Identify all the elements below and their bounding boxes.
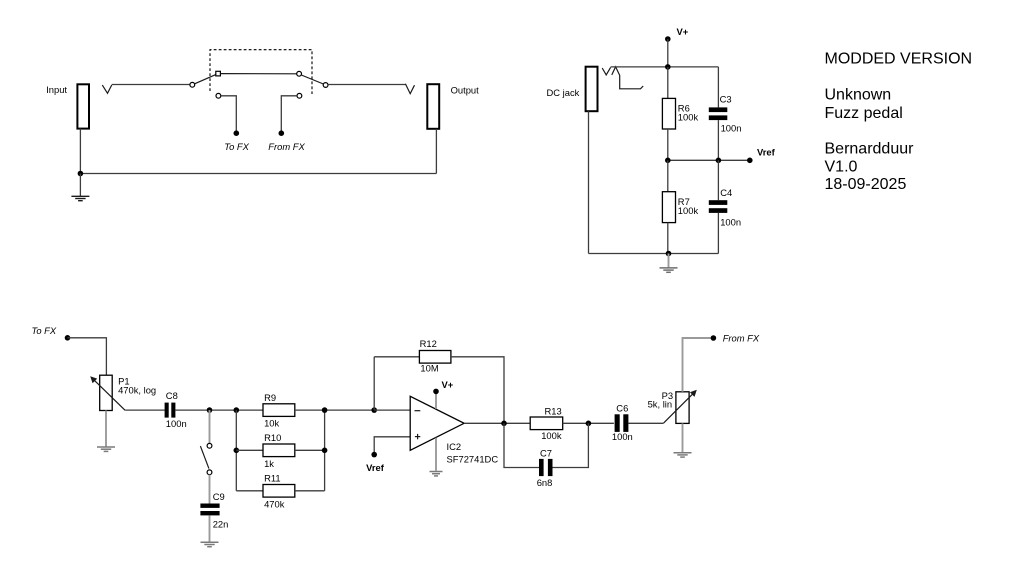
wire branch to switch S2	[209, 410, 211, 443]
wire switch to C9	[209, 475, 211, 504]
svg-text:C6: C6	[616, 403, 628, 414]
svg-text:100n: 100n	[166, 418, 187, 429]
wire Vref stub	[374, 437, 410, 455]
svg-text:C9: C9	[213, 491, 225, 502]
svg-text:10M: 10M	[420, 363, 438, 374]
resistor R7	[662, 192, 675, 223]
output jack J2	[427, 84, 439, 129]
junction dot V+ rail	[665, 64, 671, 70]
svg-text:C4: C4	[720, 187, 732, 198]
junction dot Vref left	[665, 158, 671, 164]
wire R11 row left	[236, 490, 263, 492]
node Vref terminal dot	[747, 158, 753, 164]
wire right vertical of R network	[324, 410, 326, 491]
svg-text:Vref: Vref	[366, 462, 385, 473]
resistor R9	[263, 404, 295, 417]
wire left vertical of R network	[235, 410, 237, 491]
svg-text:1k: 1k	[264, 458, 274, 469]
svg-text:100n: 100n	[720, 216, 741, 227]
ground P1	[97, 447, 115, 451]
wire switch to output	[328, 84, 405, 86]
op-amp IC2 triangle	[410, 396, 464, 450]
svg-text:V+: V+	[677, 26, 689, 37]
svg-text:C8: C8	[166, 390, 178, 401]
capacitor C4	[709, 200, 728, 205]
wire R10 right	[295, 449, 325, 451]
wire C4 bottom	[717, 213, 719, 254]
wire C7 branch left	[504, 423, 539, 467]
wire input jack sleeve down	[79, 129, 81, 174]
svg-text:Bernardduur: Bernardduur	[825, 140, 915, 157]
resistor R10	[263, 444, 295, 457]
switch S1 bar	[220, 73, 296, 75]
capacitor C3	[709, 107, 728, 112]
wire C9 to ground	[209, 515, 211, 542]
wire DC jack sleeve down	[588, 111, 590, 253]
wire stub to ground	[79, 174, 81, 197]
svg-text:To FX: To FX	[32, 325, 57, 336]
wire Vref to R7	[667, 160, 669, 191]
potentiometer P1 body	[100, 375, 113, 410]
svg-text:R9: R9	[264, 392, 276, 403]
junction dot output node	[501, 421, 507, 427]
capacitor C8	[165, 403, 169, 418]
wire to op-amp inverting input	[374, 409, 410, 411]
potentiometer P1 wiper arrow	[93, 379, 125, 410]
dashed switch outline	[210, 50, 312, 94]
output jack tip contact	[405, 84, 414, 94]
junction dot Vref mid	[716, 158, 722, 164]
junction dot R13/C7 node	[586, 421, 592, 427]
wire Vref rail	[668, 159, 750, 161]
svg-text:100n: 100n	[721, 123, 742, 134]
wire to R6	[667, 67, 669, 99]
wire to From FX node	[281, 96, 297, 132]
DC jack switch contact	[612, 67, 643, 89]
input jack tip contact	[102, 85, 112, 93]
op-amp plus sign	[415, 436, 420, 438]
wire P1 wiper to C8	[125, 409, 165, 411]
switch S1 pole left contact	[190, 82, 195, 87]
wire feedback top right	[451, 357, 504, 424]
ground op-amp	[430, 472, 443, 476]
junction dot R10 left	[234, 448, 240, 454]
wire feedback left vertical	[373, 357, 375, 410]
wire C3 bottom	[717, 120, 719, 160]
node To FX terminal dot	[234, 130, 240, 136]
wire top rail	[611, 66, 719, 68]
svg-text:DC jack: DC jack	[547, 87, 580, 98]
svg-text:22n: 22n	[213, 518, 229, 529]
potentiometer P3 body	[676, 392, 689, 424]
wire R6 to Vref	[667, 129, 669, 160]
svg-text:C3: C3	[720, 94, 732, 105]
node To FX dot	[65, 335, 71, 341]
node From FX terminal dot	[279, 130, 285, 136]
resistor R6	[662, 98, 675, 129]
junction dot R9 right	[322, 407, 328, 413]
switch S1 common square terminal	[216, 71, 221, 76]
svg-text:Output: Output	[451, 84, 480, 95]
svg-text:18-09-2025: 18-09-2025	[825, 176, 907, 193]
wire To FX to P1	[68, 338, 107, 375]
capacitor C9	[200, 504, 219, 508]
ground input	[71, 196, 89, 200]
capacitor C7	[539, 459, 544, 476]
node From FX dot	[711, 335, 717, 341]
wire C8 to R network	[175, 409, 263, 411]
svg-text:R10: R10	[264, 432, 281, 443]
wire ground bus bottom	[80, 173, 436, 175]
wire R11 right	[295, 490, 325, 492]
wire C4 top	[717, 160, 719, 200]
switch S1 right lever	[301, 75, 323, 84]
DC jack J3	[586, 67, 598, 112]
wire op-amp output	[464, 422, 530, 424]
svg-text:IC2: IC2	[447, 441, 462, 452]
wire P3 to ground	[682, 423, 684, 452]
wire R13 right	[563, 422, 614, 424]
svg-text:470k: 470k	[264, 498, 285, 509]
wire C6 right	[628, 422, 663, 424]
resistor R11	[263, 485, 295, 498]
svg-text:R11: R11	[264, 473, 281, 484]
junction dot R branch	[234, 407, 240, 413]
wire to To FX node	[221, 96, 236, 132]
wire feedback top left	[374, 356, 419, 358]
svg-text:Input: Input	[46, 84, 67, 95]
junction dot R10 right	[322, 448, 328, 454]
ground power	[660, 268, 678, 272]
svg-text:R12: R12	[420, 338, 437, 349]
svg-text:Unknown: Unknown	[825, 86, 892, 103]
switch S1 right pole contact	[323, 83, 328, 88]
wire P3 top to From FX	[683, 338, 711, 392]
svg-text:6n8: 6n8	[537, 477, 553, 488]
svg-text:V+: V+	[442, 379, 454, 390]
node Vref dot	[371, 452, 377, 458]
junction dot input sleeve	[78, 171, 84, 177]
DC jack tip contact	[602, 67, 610, 75]
switch S2 bottom contact	[207, 470, 212, 475]
svg-text:100k: 100k	[678, 112, 699, 123]
wire C3 top	[717, 67, 719, 108]
junction dot power ground	[666, 251, 672, 257]
junction dot switch branch	[207, 407, 213, 413]
wire input to switch	[112, 84, 190, 86]
op-amp IC2 V- wire to ground	[435, 438, 437, 471]
input jack J1	[77, 84, 89, 128]
svg-text:MODDED VERSION: MODDED VERSION	[825, 50, 973, 67]
svg-text:V1.0: V1.0	[825, 159, 858, 176]
wire R9 right	[295, 409, 374, 411]
switch S1 lower-right throw contact	[297, 93, 302, 98]
svg-text:10k: 10k	[264, 418, 279, 429]
svg-text:From FX: From FX	[723, 333, 760, 344]
wire R10 row left	[236, 449, 263, 451]
svg-text:C7: C7	[540, 448, 552, 459]
resistor R12	[419, 351, 451, 364]
junction dot inverting input node	[371, 407, 377, 413]
switch S1 lower-left throw contact	[216, 93, 221, 98]
wire R7 bottom	[667, 223, 669, 254]
ground C9	[201, 542, 219, 546]
switch S1 right top contact	[297, 71, 302, 76]
op-amp minus sign	[415, 410, 421, 412]
svg-text:Vref: Vref	[757, 147, 776, 158]
svg-text:5k, lin: 5k, lin	[648, 398, 673, 409]
wire C7 branch right	[553, 423, 589, 467]
svg-text:SF72741DC: SF72741DC	[447, 453, 499, 464]
wire V+ down	[667, 39, 669, 67]
svg-text:100k: 100k	[541, 430, 562, 441]
switch S1 left lever	[195, 75, 216, 84]
svg-text:To FX: To FX	[224, 141, 249, 152]
ground P3	[674, 453, 692, 457]
resistor R13	[530, 417, 563, 430]
wire stub to ground	[668, 254, 670, 268]
svg-text:Fuzz pedal: Fuzz pedal	[825, 105, 903, 122]
node V+ terminal dot	[665, 36, 671, 42]
wire bottom rail power	[589, 253, 719, 255]
capacitor C6	[615, 414, 620, 432]
svg-text:100n: 100n	[612, 431, 633, 442]
op-amp IC2 V+ wire	[435, 392, 437, 409]
svg-text:From FX: From FX	[268, 141, 305, 152]
switch S2 lever	[200, 446, 209, 469]
svg-text:R13: R13	[545, 405, 562, 416]
svg-text:100k: 100k	[678, 205, 699, 216]
wire P1 to ground	[105, 411, 107, 447]
svg-text:470k, log: 470k, log	[118, 385, 156, 396]
switch S2 top contact	[207, 443, 212, 448]
node V+ dot	[433, 389, 439, 395]
wire output jack sleeve down	[435, 129, 437, 174]
potentiometer P3 wiper arrow	[664, 393, 694, 423]
